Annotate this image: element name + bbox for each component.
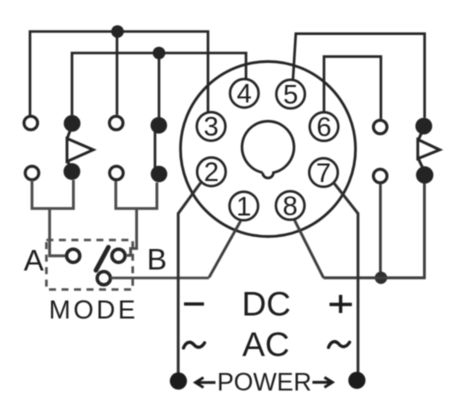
socket outline — [181, 62, 356, 237]
arrow left toward power dot — [196, 378, 216, 388]
terminal col5 top (open) — [373, 120, 387, 134]
svg-text:AC: AC — [242, 326, 289, 364]
AC tilde left — [184, 342, 205, 348]
terminal col1 bottom (open) — [25, 166, 39, 180]
pin 3 — [197, 112, 226, 142]
pin 6 — [310, 112, 339, 142]
wire from switch common to pin 1 line — [111, 277, 210, 280]
contact dot col6 top — [415, 118, 432, 135]
contact dot col6 bottom — [416, 166, 433, 183]
wire pin 2 to power - terminal — [178, 183, 200, 373]
wire drop to switch contact B — [127, 209, 137, 256]
svg-text:4: 4 — [237, 79, 252, 109]
pin 5 — [276, 79, 305, 109]
power terminal dot left — [170, 372, 187, 389]
switch contact B — [112, 249, 125, 262]
pin 4 — [230, 79, 259, 109]
wire bus line 4 (pin 6 to terminal col5) — [324, 57, 381, 119]
terminal col3 bottom (open) — [110, 166, 124, 180]
terminal col5 bottom (open) — [373, 169, 387, 183]
arrow right toward power dot — [312, 377, 332, 387]
wire U join right pair — [116, 181, 157, 209]
wire U join left pair — [32, 180, 73, 209]
power terminal dot right — [348, 372, 365, 389]
wire col5 drop to bus — [379, 184, 382, 278]
svg-text:3: 3 — [204, 112, 219, 142]
pin 7 — [309, 158, 338, 188]
junction dot on right bus — [375, 272, 387, 284]
switch contact A — [67, 249, 80, 262]
wire drop from line 2 to contact col4 — [158, 53, 161, 117]
junction on line 1 above terminal col3 — [111, 25, 124, 38]
svg-text:6: 6 — [316, 112, 331, 142]
wire col6 drop and bottom bus — [323, 183, 424, 277]
contact blade (triangle) between col6 dots — [418, 128, 440, 172]
contact dot col2 bottom — [64, 163, 81, 180]
svg-text:DC: DC — [242, 286, 291, 324]
svg-text:1: 1 — [236, 191, 251, 221]
wire pin 7 to power + terminal — [334, 184, 358, 373]
socket center hole with keyway — [242, 121, 294, 178]
wire pin 1 diagonal to switch common line — [209, 221, 241, 278]
pin 8 — [276, 191, 305, 221]
svg-text:7: 7 — [316, 158, 331, 188]
svg-text:8: 8 — [283, 191, 298, 221]
wire drop to switch contact A — [50, 209, 65, 256]
AC tilde right — [329, 342, 350, 348]
svg-text:POWER: POWER — [217, 369, 311, 397]
terminal col1 top (open) — [24, 116, 38, 130]
contact dot col2 top — [64, 115, 81, 132]
contact dot col4 top — [151, 117, 168, 134]
DC plus polarity mark — [330, 295, 352, 313]
wire bus line 3 (top-right horizontal, pin 5 to contact col6) — [293, 34, 425, 118]
wire link between col4 dots — [154, 127, 157, 172]
switch common pole — [97, 272, 110, 285]
pin 1 — [230, 191, 259, 221]
switch lever (common to B) — [96, 247, 109, 270]
svg-text:MODE: MODE — [49, 295, 138, 325]
junction on line 2 above contact col4 — [153, 47, 166, 60]
contact dot col4 bottom — [151, 166, 168, 183]
wire bus line 2 (second horizontal, contact col2 to pin 4) — [72, 53, 246, 115]
svg-text:A: A — [24, 244, 44, 277]
wire drop from line 1 to terminal col3 — [116, 32, 119, 115]
svg-text:2: 2 — [204, 157, 219, 187]
svg-text:B: B — [147, 243, 167, 276]
terminal col3 top (open) — [109, 116, 123, 130]
wire pin 8 diagonal to bus — [295, 220, 324, 277]
pin 2 — [197, 157, 226, 187]
DC minus polarity mark — [184, 302, 204, 305]
MODE selector dashed box — [46, 240, 132, 290]
svg-text:5: 5 — [283, 79, 298, 109]
wire bus line 1 (top-left horizontal, terminal 1 to pin 3) — [30, 32, 208, 116]
contact blade (triangle) between col2 dots — [67, 126, 93, 171]
